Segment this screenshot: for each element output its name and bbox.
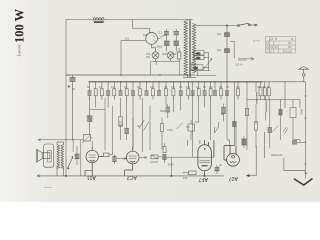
capacitor C3 <box>66 75 76 140</box>
svg-text:0,1MΩ: 0,1MΩ <box>150 160 158 164</box>
bottom right wires <box>246 132 307 177</box>
wire drop 199 <box>195 98 199 122</box>
capacitor CA3 <box>119 82 123 96</box>
svg-text:5000: 5000 <box>168 163 174 167</box>
lamp LP1 <box>152 44 159 61</box>
wire main bus2 y82 <box>89 81 263 83</box>
resistor R11b <box>163 143 166 152</box>
capacitor C2a <box>158 29 170 41</box>
svg-text:0,1: 0,1 <box>219 85 223 89</box>
svg-text:0,2: 0,2 <box>111 85 115 89</box>
wire drop 210 <box>210 98 212 140</box>
svg-text:0,1: 0,1 <box>179 85 183 89</box>
wire top bus <box>66 19 193 21</box>
svg-text:0,5: 0,5 <box>171 85 175 89</box>
wire bus2 tail <box>263 81 306 83</box>
resistor box F3 <box>191 62 209 70</box>
tube T3 output <box>195 140 214 176</box>
capacitor CL2 <box>124 98 129 140</box>
wire antenna downlead <box>304 82 307 179</box>
wire drop x142 <box>142 98 144 152</box>
svg-text:220240: 220240 <box>284 50 293 53</box>
wire rectifier drop <box>232 82 236 146</box>
capacitor CA6 <box>157 82 161 96</box>
resistor R3 <box>177 48 181 62</box>
svg-text:0,1: 0,1 <box>99 85 103 89</box>
svg-text:125: 125 <box>288 46 293 49</box>
choke L1 <box>93 18 104 23</box>
resistor RC3 <box>263 82 266 100</box>
ground chevron <box>294 179 313 186</box>
voltage table <box>266 37 296 54</box>
svg-text:µF: µF <box>219 163 222 167</box>
capacitor CM1 <box>166 104 171 118</box>
capacitor C4 <box>224 26 230 49</box>
resistor R12 <box>183 171 196 175</box>
capacitor CB1 <box>179 82 183 111</box>
wire horiz 99 <box>247 98 300 101</box>
resistor RB6 <box>220 82 223 100</box>
svg-text:AF7: AF7 <box>198 176 208 182</box>
svg-text:150: 150 <box>183 176 188 180</box>
svg-text:453: 453 <box>194 66 199 70</box>
capacitor C5 <box>224 49 230 82</box>
pot arrow M <box>177 123 183 129</box>
capacitor CA1 <box>88 82 92 100</box>
switch SM <box>215 127 219 133</box>
mid verticals left <box>90 93 151 155</box>
junction dots bus <box>95 74 286 82</box>
grid wiring T1 <box>91 138 106 151</box>
svg-text:Hilfspunkt: Hilfspunkt <box>271 153 283 157</box>
component row C right <box>245 82 285 126</box>
wire drop 300 <box>299 100 301 109</box>
svg-text:Erde: Erde <box>300 108 304 114</box>
svg-text:4µF: 4µF <box>217 48 222 52</box>
component row B <box>165 82 240 146</box>
switch SL1 <box>139 120 149 131</box>
right mid verticals <box>242 82 306 150</box>
wire T1 to T2 <box>117 158 127 160</box>
svg-text:0,1: 0,1 <box>159 31 163 35</box>
tone switch S2 <box>68 157 74 170</box>
wire drop x89 <box>90 97 106 144</box>
wire left border vertical <box>65 20 67 176</box>
svg-text:0,3: 0,3 <box>236 85 240 89</box>
wire drop x150 <box>149 106 151 151</box>
wire drop 173 <box>172 98 174 112</box>
downlead arrowhead <box>304 172 307 175</box>
resistor RA3 <box>113 82 116 100</box>
transformer box TD <box>290 100 300 142</box>
wire drop 236 <box>235 127 237 146</box>
tube T1 <box>85 147 103 176</box>
phono input arrow <box>38 139 84 141</box>
lamp LP2 <box>167 51 174 61</box>
capacitor C2d <box>174 41 180 52</box>
capacitor CB4 <box>213 82 217 96</box>
svg-text:0,1: 0,1 <box>124 85 128 89</box>
wire sub vertical 234 <box>230 41 234 58</box>
svg-text:2W: 2W <box>146 55 150 59</box>
capacitor CD2 <box>279 100 283 141</box>
tube T4 rectifier <box>224 146 239 167</box>
svg-text:1W: 1W <box>186 85 190 89</box>
resistor RB3 <box>187 82 190 100</box>
labels small scattered <box>72 31 269 181</box>
svg-text:0,1: 0,1 <box>164 85 168 89</box>
capacitor CB5 <box>225 82 229 96</box>
pencil mark <box>44 187 52 189</box>
svg-text:Lorenz: Lorenz <box>17 44 22 57</box>
wire T3 top feeds <box>188 140 200 146</box>
resistor RB1 <box>165 82 168 106</box>
tube T2 <box>125 147 139 176</box>
resistor RD1 <box>255 122 258 149</box>
box M1 <box>188 120 195 140</box>
antenna terminal <box>299 66 309 81</box>
resistor RB2 <box>172 82 175 100</box>
transformer T1 <box>183 20 196 78</box>
svg-text:0,1: 0,1 <box>196 85 200 89</box>
switch S1 <box>238 23 258 26</box>
switch SD <box>283 127 288 134</box>
capacitor CM2 <box>221 104 226 122</box>
resistor RM1 <box>161 118 164 150</box>
svg-text:1 2 3: 1 2 3 <box>266 50 272 53</box>
resistor RC4 <box>268 82 271 100</box>
output transformer T2out <box>57 142 64 171</box>
potentiometer P1 <box>83 135 91 144</box>
svg-text:0,2: 0,2 <box>209 85 213 89</box>
svg-text:A01: A01 <box>87 174 96 180</box>
capacitor CA4 <box>131 82 135 147</box>
title Lorenz 100 W <box>13 8 27 57</box>
resistor box F1 <box>192 51 209 56</box>
capacitor C12 <box>215 165 220 174</box>
wire x73 drop <box>72 140 74 152</box>
component row A <box>88 82 162 147</box>
resistor RA2 <box>100 82 103 100</box>
capacitor CD1 <box>268 99 273 149</box>
wire bottom bus <box>37 171 224 178</box>
resistor RA4 <box>125 82 128 100</box>
svg-text:4µF: 4µF <box>217 32 222 36</box>
svg-text:12V: 12V <box>125 36 130 40</box>
wire heater links <box>151 62 180 76</box>
resistor RA6 <box>152 82 155 100</box>
wire drop 192 <box>192 93 194 158</box>
pot arrow PD <box>273 126 279 132</box>
wire B+ lead <box>247 145 257 176</box>
coil L3 <box>266 96 268 121</box>
capacitor CD3 <box>292 141 306 145</box>
wire drop 227 <box>227 93 230 146</box>
capacitor CA5 <box>145 82 149 96</box>
svg-text:a + b: a + b <box>254 39 260 43</box>
capacitor C20 <box>75 146 80 165</box>
resistor RC1 <box>245 82 248 126</box>
resistor RA5 <box>139 82 142 100</box>
wire main bus1 y75 <box>66 74 195 76</box>
mains arrow <box>235 57 255 66</box>
capacitor CL1 <box>87 110 93 135</box>
wire x80 drop <box>80 140 82 176</box>
resistor box F2 <box>194 56 209 60</box>
svg-text:450: 450 <box>196 51 201 55</box>
svg-text:110: 110 <box>288 42 292 45</box>
trim arrow <box>204 59 213 70</box>
wire T2 to R11 <box>139 157 147 159</box>
wire drop 247 <box>246 108 248 150</box>
resistor RL1 <box>119 98 122 140</box>
svg-text:A07: A07 <box>229 175 238 181</box>
band switch strokes <box>190 53 216 76</box>
resistor RC2 <box>259 82 262 100</box>
resistor R10 <box>103 153 112 157</box>
resistor R11 <box>151 155 162 159</box>
wire misc <box>218 122 220 127</box>
resistor RB7 <box>237 82 240 100</box>
capacitor C2c <box>174 29 180 41</box>
svg-text:1MΩ: 1MΩ <box>167 128 173 132</box>
capacitor C2b <box>164 41 170 52</box>
capacitor CB2 <box>191 82 195 96</box>
capacitor C11 <box>162 155 166 163</box>
resistor RB5 <box>209 82 212 100</box>
svg-text:µF: µF <box>72 87 75 91</box>
wire drop x120 <box>120 92 122 94</box>
svg-text:100 W: 100 W <box>13 8 27 43</box>
wire right edge drop <box>264 132 266 158</box>
electrolytic CE <box>242 136 247 148</box>
svg-text:420: 420 <box>143 33 148 37</box>
capacitor CB3 <box>203 82 207 108</box>
coil L2 <box>256 82 258 124</box>
svg-text:400: 400 <box>162 52 167 56</box>
tube V1 <box>121 20 158 76</box>
wire L-shape <box>284 158 306 171</box>
svg-text:5000: 5000 <box>157 45 163 49</box>
capacitor C10 <box>112 155 116 165</box>
svg-text:5000: 5000 <box>160 109 166 113</box>
wire C11 to T3 <box>167 157 198 176</box>
svg-text:452: 452 <box>196 56 201 60</box>
svg-text:0,5: 0,5 <box>150 85 154 89</box>
wire drop x133 <box>132 118 134 150</box>
resistor RB4 <box>197 82 200 100</box>
capacitor CA2 <box>106 82 110 108</box>
resistor RA1 <box>94 82 97 108</box>
wire drop x112 <box>112 106 114 155</box>
svg-text:400: 400 <box>172 52 177 56</box>
mid small components x160-200 <box>161 93 237 158</box>
svg-text:220 V~: 220 V~ <box>235 63 244 67</box>
wire drop 285 <box>284 82 286 108</box>
speaker SP <box>36 144 53 167</box>
wire mains top <box>196 25 238 26</box>
svg-text:AC2: AC2 <box>127 174 137 180</box>
